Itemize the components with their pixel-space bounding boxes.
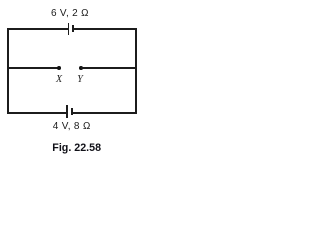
node Y terminal dot — [79, 66, 83, 70]
label: node X — [49, 74, 69, 85]
wire: left side — [7, 28, 9, 114]
wire: right side — [135, 28, 137, 114]
label: 4 V, 8 Ω (bottom battery value) — [42, 121, 102, 132]
wire: middle, left segment — [7, 67, 59, 69]
wire: bottom, right segment — [73, 112, 137, 114]
wire: middle, right segment — [81, 67, 137, 69]
battery B1 (6 V, 2 Ω) — [0, 0, 1, 1]
caption: Fig. 22.58 — [52, 142, 101, 154]
label: node Y — [70, 74, 90, 85]
label: 6 V, 2 Ω (top battery value) — [40, 8, 100, 19]
battery B2 (4 V, 8 Ω) — [0, 0, 1, 1]
wire: top, right segment — [74, 28, 137, 30]
wire: bottom, left segment — [7, 112, 66, 114]
node X terminal dot — [57, 66, 61, 70]
wire: top, left segment — [7, 28, 68, 30]
